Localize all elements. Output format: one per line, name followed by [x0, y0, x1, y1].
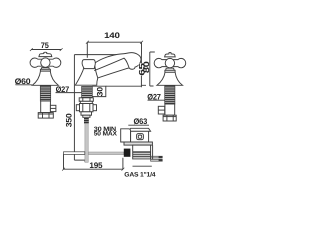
dim 80 line [150, 52, 155, 86]
tap T2 neck collars [165, 68, 175, 72]
rod adjuster [84, 118, 89, 123]
tap T1 side connector [50, 105, 56, 111]
tap T1 threaded shank [40, 86, 50, 101]
tap T2 handle cross [154, 53, 186, 68]
leader D27 right [148, 99, 165, 101]
spout cap [82, 60, 95, 69]
tap T1 neck collars [40, 68, 50, 72]
dim 75 bracket [30, 48, 63, 51]
spout threaded shank [82, 86, 93, 97]
spout collar [80, 101, 92, 103]
svg-text:30: 30 [95, 86, 104, 96]
svg-text:75: 75 [41, 41, 49, 50]
drain band [124, 142, 152, 145]
tap T1 bottom nut [38, 113, 53, 119]
drain knob [137, 134, 144, 140]
tap T1 handle cross [30, 52, 61, 67]
tap T2 side connector [158, 106, 164, 114]
pop-up lift rod [85, 123, 88, 162]
dim 140 bracket [86, 41, 143, 58]
lever bar [64, 152, 85, 155]
drain flange [129, 128, 151, 131]
drain body [131, 131, 149, 142]
label 65 [139, 63, 145, 75]
tap T2 smooth shank [165, 104, 175, 115]
dim 30 box [92, 86, 106, 96]
pivot rod lower [151, 159, 163, 161]
svg-text:140: 140 [104, 31, 120, 40]
pivot rod upper [151, 156, 163, 158]
tap T2 bottom nut [163, 115, 176, 121]
black connector [124, 149, 131, 157]
svg-text:350: 350 [65, 113, 74, 128]
svg-text:GAS 1"1/4: GAS 1"1/4 [124, 172, 156, 179]
leader D60 [16, 84, 32, 86]
spout underside edge [98, 68, 129, 78]
deck line [106, 85, 142, 87]
svg-text:195: 195 [89, 161, 103, 170]
tap T1 bell [32, 71, 58, 85]
drain tail [133, 145, 151, 159]
spout nut 1 [79, 98, 93, 102]
horizontal rod [88, 152, 124, 155]
tap T2 bell [157, 72, 183, 85]
spout lower block [81, 112, 92, 115]
drain tail sleeve edge [152, 145, 154, 159]
svg-text:80: 80 [142, 60, 151, 73]
spout body and tube fill [75, 53, 141, 86]
slab box [121, 129, 131, 142]
dim 195 bracket [62, 154, 124, 170]
svg-text:50 MAX: 50 MAX [94, 131, 118, 138]
spout nut 2 [76, 104, 96, 112]
leader D63 [128, 124, 149, 126]
drain bottom line [133, 165, 152, 167]
drain tail threads [133, 151, 151, 157]
tap T2 threaded shank [165, 86, 175, 104]
leader D27 left [56, 92, 82, 94]
spout outline edges [75, 53, 141, 86]
tap T1 smooth shank [41, 101, 51, 113]
spout small block [83, 115, 90, 117]
dim 65 line [141, 55, 146, 88]
dim 350 line [74, 55, 117, 162]
